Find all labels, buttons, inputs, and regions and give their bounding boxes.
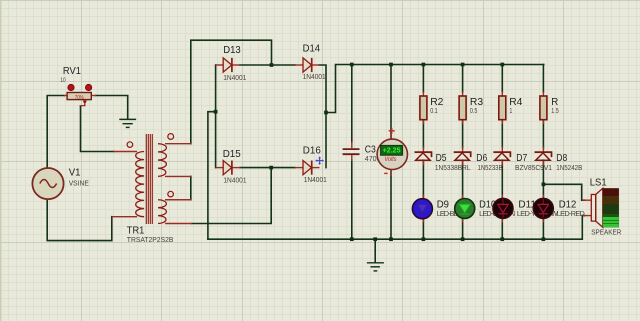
secondary coil A [158, 144, 166, 177]
wire R4 column [501, 65, 503, 240]
lead R column [542, 92, 544, 223]
wire bottom rail [208, 216, 582, 240]
svg-text:TRSAT2P2S2B: TRSAT2P2S2B [127, 235, 174, 244]
svg-text:0.1: 0.1 [430, 106, 438, 115]
node rail D11 [500, 237, 504, 241]
node rail D10 [461, 237, 465, 241]
lead D15 cathode [232, 167, 241, 169]
lead D14 cathode [312, 64, 320, 66]
svg-text:1: 1 [509, 106, 512, 115]
wire C3 column [351, 65, 353, 240]
sine wave [40, 180, 57, 188]
RV1 terminal dot left [68, 84, 74, 90]
phase dot secondary A [168, 134, 174, 140]
svg-text:0.5: 0.5 [470, 106, 478, 115]
wire RV1 wiper to TR1 primary top [81, 106, 115, 151]
svg-text:10: 10 [60, 78, 66, 84]
RV1 terminal dot right [85, 84, 91, 90]
source V1 circle [32, 168, 63, 199]
lead D15 anode [216, 167, 224, 169]
wire D15 cathode to J4 [240, 167, 271, 169]
lead speaker pins [582, 200, 591, 215]
lead RV1 left [64, 95, 68, 97]
svg-text:1N4001: 1N4001 [304, 175, 327, 184]
svg-text:1N4001: 1N4001 [303, 72, 326, 81]
node J2 D13.A/D15.A [214, 110, 218, 114]
wire D13 anode down to D15 anode [215, 65, 217, 168]
lead RV1 right [92, 95, 97, 97]
node J4 D15.K/D16.A [269, 166, 273, 170]
wire J3 jog up to bus [326, 65, 544, 113]
wire sec-B bottom to D15/D16 node [192, 169, 272, 224]
wire RV1 right to ground G1 [96, 96, 128, 119]
wire center tap link [190, 176, 192, 199]
svg-text:RV1: RV1 [63, 66, 81, 77]
svg-text:SPEAKER: SPEAKER [591, 227, 621, 236]
svg-text:VSINE: VSINE [69, 179, 89, 188]
node rail D12 [542, 237, 546, 241]
wire R column [542, 65, 544, 240]
svg-text:LS1: LS1 [590, 177, 607, 188]
cursor crosshair [315, 156, 324, 165]
lead TR1 primary top [114, 151, 138, 153]
lead voltmeter top/bottom [390, 133, 392, 176]
node bus R4 [500, 63, 504, 67]
svg-text:V1: V1 [69, 168, 81, 179]
node bus R2 [422, 63, 426, 67]
lead D13 cathode [232, 64, 241, 66]
svg-text:1N4001: 1N4001 [223, 176, 246, 185]
svg-text:D14: D14 [303, 43, 321, 54]
node bus voltmeter [389, 63, 393, 67]
resistor RV1 body [67, 93, 91, 100]
wire sec-A top to D13/D14 node [191, 40, 272, 144]
node bus R3 [461, 63, 465, 67]
wire D12 node to speaker pin1 [543, 184, 584, 200]
lead TR1 secB bottom [165, 223, 192, 225]
lead TR1 secA top [165, 143, 191, 145]
wire J4 to D16 anode [271, 167, 295, 169]
svg-text:+2.25: +2.25 [383, 148, 401, 155]
lead TR1 secB top [165, 199, 191, 201]
svg-text:1.5: 1.5 [551, 106, 559, 115]
wire negative jog to bottom rail [208, 112, 216, 240]
wire D13 cathode to node J1 [240, 64, 272, 66]
svg-text:70%: 70% [75, 95, 84, 101]
svg-text:1N5233B: 1N5233B [478, 163, 503, 172]
speaker driver rect [591, 195, 595, 222]
lead R2 top/bottom/zener/led [422, 92, 424, 223]
speaker cone [596, 188, 603, 227]
primary coil [136, 152, 144, 217]
svg-text:1N4001: 1N4001 [223, 73, 246, 82]
wire R3 column [462, 65, 464, 240]
phase dot secondary B [168, 191, 174, 197]
lead D13 anode [216, 64, 224, 66]
core lines [146, 134, 152, 224]
secondary coil B [158, 200, 166, 224]
lead D14 anode [295, 64, 304, 66]
svg-text:D15: D15 [223, 149, 241, 160]
wire D14 cathode corner down [319, 65, 326, 113]
phase dot primary [127, 142, 133, 148]
node D12/speaker tap [542, 182, 546, 186]
svg-text:D16: D16 [303, 146, 321, 157]
sheet edge line [0, 0, 1, 321]
svg-text:D13: D13 [223, 45, 241, 56]
LED model value texts (drawn before circles so circles truncate them) [437, 209, 585, 218]
lead TR1 primary bottom [112, 216, 137, 218]
svg-text:Volts: Volts [385, 156, 397, 163]
wire R2 column [422, 65, 424, 240]
node rail voltmeter [389, 237, 393, 241]
svg-text:D9: D9 [437, 200, 449, 211]
svg-text:BZV85C9V1: BZV85C9V1 [515, 163, 552, 172]
lead R3 column [462, 92, 464, 223]
svg-text:1N5242B: 1N5242B [556, 163, 582, 172]
lead TR1 secA bottom [165, 175, 191, 177]
wire V1 bottom to TR1 primary bottom [47, 200, 112, 241]
node rail ground [373, 237, 377, 241]
speaker color bar [603, 188, 619, 227]
wire rail end to speaker pin2 [582, 215, 584, 217]
svg-text:1N5338BRL: 1N5338BRL [435, 163, 471, 172]
lead C3 top/bottom [351, 142, 353, 162]
RV1 wiper arrow [84, 99, 86, 101]
svg-text:D12: D12 [559, 200, 577, 211]
wire J1 to D14 anode [272, 64, 296, 66]
node J3 D14.K/D16.K [324, 111, 328, 115]
lead D16 cathode [312, 167, 320, 169]
node bus C3 [350, 63, 354, 67]
node J1 D13.K/D14.A [270, 63, 274, 67]
wire J3 down to D16 cathode [325, 113, 327, 168]
lead D16 anode [295, 167, 304, 169]
wire ground G2 stub [374, 239, 376, 262]
wire RV1 left to V1 top [47, 96, 64, 169]
node rail D9 [422, 237, 426, 241]
node rail C3 [350, 237, 354, 241]
wire voltmeter column [390, 65, 392, 240]
lead R4 column [501, 92, 503, 223]
